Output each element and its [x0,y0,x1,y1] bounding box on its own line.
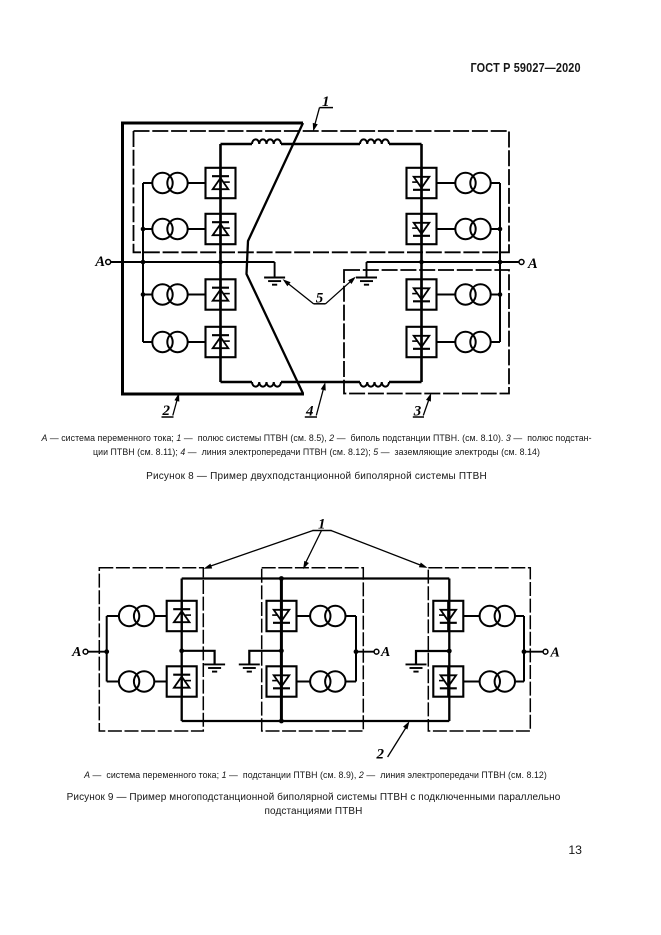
ground electrode sub3 [416,651,449,664]
wire row 4 right valve [437,341,456,343]
transformer T1 sub1 [119,606,154,626]
wire row 2 sub3 AC [516,681,525,683]
figure 9 title line 2 [0,806,644,817]
wire row 2 sub2 AC [346,681,356,683]
svg-text:А: А [550,646,560,661]
wire row 2 sub3 valve [463,681,479,683]
wire row 1 sub1 AC [107,615,119,617]
converter U3 left [206,279,236,309]
wire row 1 sub2 AC [346,615,356,617]
wire: sub3 AC bus [523,616,525,682]
wire row 3 right valve [437,294,456,296]
converter U8 right [407,327,437,357]
transformer T5 sub3 [480,606,515,626]
transformer T8 right [455,332,490,352]
substation box 1c (dashed, right) [428,568,530,731]
converter U7 right [407,279,437,309]
converter U4 sub2 [267,666,297,696]
wire row 1 sub3 AC [516,615,525,617]
ground electrode right (5) [366,262,368,278]
substation pole box 3 (dashed) [344,270,509,394]
wire row 2 left valve [188,228,205,230]
converter U6 sub3 [433,666,463,696]
converter U5 sub3 [433,601,463,631]
wire row 2 sub2 valve [297,681,310,683]
wire row 1 sub3 valve [463,615,479,617]
converter U4 left [206,327,236,357]
converter U3 sub2 [267,601,297,631]
converter U1 sub1 [167,601,197,631]
node A (left terminal) [111,261,275,263]
wire row 2 sub1 AC [107,681,119,683]
transformer T6 right [455,219,490,239]
wire row 2 right AC [491,228,500,230]
wire [389,143,422,146]
caption figure 8 line 1 [0,433,647,443]
junction dots [279,576,284,581]
wire: sub2 AC bus [355,616,357,682]
transformer T2 sub1 [119,671,154,691]
transformer T6 sub3 [480,671,515,691]
transformer T7 right [455,284,490,304]
substation bipole box 2 (solid outline) [123,123,305,394]
transmission line break (zigzag) [247,123,304,394]
svg-text:А: А [94,254,105,270]
reactor L bottom-left [252,382,281,387]
svg-text:А: А [71,645,81,660]
reactor L top-left [252,139,281,144]
wire: top DC pole line [221,143,253,146]
wire: left AC bus [142,183,144,342]
wire row 3 left valve [188,294,205,296]
wire row 1 right valve [437,182,456,184]
svg-text:А: А [380,645,390,660]
svg-text:2: 2 [376,747,385,763]
node A sub2 [356,651,374,653]
converter U2 sub1 [167,666,197,696]
wire: middle converter bus [280,579,283,722]
wire [389,381,422,384]
converter U5 right [407,168,437,198]
junction dots [141,227,146,232]
wire: top DC line [182,577,450,579]
wire: right AC bus [499,183,501,342]
wire row 4 right AC [491,341,500,343]
transformer T4 left [152,332,187,352]
wire row 2 sub1 valve [155,681,167,683]
wire row 1 right AC [491,182,500,184]
svg-text:А: А [527,256,538,272]
node A sub3 [524,651,543,653]
figure 9 title line 1 [0,792,644,803]
substation box 1b (dashed, middle) [262,568,364,731]
wire [281,143,360,146]
wire row 1 sub2 valve [297,615,310,617]
wire row 4 left valve [188,341,205,343]
node A sub1 [88,651,107,653]
system pole box 1 (dashed) [134,131,510,252]
reactor L bottom-right [360,382,389,387]
transformer T3 sub2 [310,606,345,626]
ground electrode sub1 [182,651,215,664]
ground electrode left (5) [274,262,276,278]
wire [281,381,360,384]
wire row 1 sub1 valve [155,615,167,617]
header ГОСТ Р 59027-2020 [471,61,581,75]
ground electrode sub2 [249,651,281,664]
wire row 2 right valve [437,228,456,230]
transformer T3 left [152,284,187,304]
converter U1 left [206,168,236,198]
transformer T4 sub2 [310,671,345,691]
reactor L top-right [360,139,389,144]
converter U6 right [407,214,437,244]
wire: right converter DC bus [420,144,423,382]
transformer T2 left [152,219,187,239]
page number [568,843,582,857]
caption figure 9 [0,770,646,780]
wire: left converter DC bus [219,144,222,382]
wire: sub1 AC bus [106,616,108,682]
wire row 1 left valve [188,182,205,184]
wire: bottom DC line [182,720,450,722]
substation box 1a (dashed, left) [99,568,203,731]
wire: bottom DC pole line [221,381,253,384]
wire row 2 left AC [143,228,152,230]
transformer T1 left [152,173,187,193]
caption figure 8 line 2 [0,447,647,457]
transformer T5 right [455,173,490,193]
figure 8 title [0,471,647,482]
wire: right converter bus [448,579,450,722]
node A (right terminal) [367,261,520,263]
wire row 3 left AC [143,294,152,296]
wire row 3 right AC [491,294,500,296]
wire row 1 left AC [143,182,152,184]
wire: left converter bus [181,579,183,722]
wire row 4 left AC [143,341,152,343]
converter U2 left [206,214,236,244]
